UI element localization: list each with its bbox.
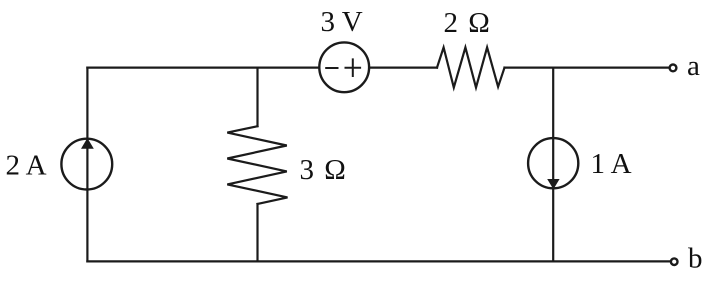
- svg-text:3 Ω: 3 Ω: [300, 154, 348, 186]
- wire bottom segment to terminal b: [87, 260, 670, 262]
- svg-text:b: b: [688, 243, 703, 275]
- voltage source V1 circle (3 V, top): [319, 42, 369, 92]
- svg-text:a: a: [687, 50, 700, 82]
- voltage source plus sign: [346, 59, 361, 76]
- svg-text:1 A: 1 A: [591, 148, 632, 180]
- wire middle rail lower: [256, 204, 258, 261]
- wire top-right segment to terminal a: [505, 66, 670, 68]
- wire top-middle segment: [370, 66, 437, 68]
- wire left rail: [86, 68, 88, 262]
- terminal b node circle: [671, 258, 678, 265]
- svg-text:2 A: 2 A: [6, 150, 47, 182]
- svg-text:3 V: 3 V: [321, 6, 363, 38]
- svg-text:2 Ω: 2 Ω: [444, 7, 492, 39]
- current source I1 circle (2 A, left): [61, 139, 112, 190]
- resistor 3ohm vertical zigzag: [227, 126, 287, 204]
- current source I2 arrowhead (down): [547, 179, 559, 189]
- voltage source minus sign: [326, 67, 337, 69]
- wire top-left segment: [87, 66, 318, 68]
- wire right rail: [552, 68, 554, 262]
- terminal a node circle: [670, 65, 677, 72]
- current source I2 circle (1 A, right): [528, 138, 578, 188]
- current source I1 arrowhead (up): [81, 138, 94, 149]
- wire middle rail upper: [256, 68, 258, 127]
- resistor 2ohm horizontal zigzag: [437, 47, 505, 87]
